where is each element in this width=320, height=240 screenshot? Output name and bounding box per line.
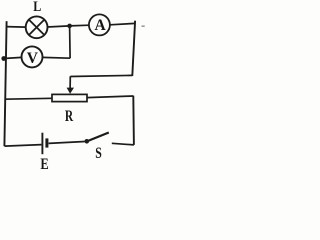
rheostat slider arrowhead (67, 88, 74, 94)
svg-text:V: V (27, 50, 39, 67)
wire left vertical (4, 21, 6, 146)
svg-text:L: L (33, 0, 41, 14)
switch S pivot node (85, 139, 90, 144)
wire right vertical lower (132, 96, 135, 145)
rheostat R body (52, 94, 87, 101)
wire battery to switch (49, 142, 85, 144)
wire rheostat left (5, 97, 53, 100)
switch S blade (87, 133, 109, 142)
svg-text:A: A (94, 17, 106, 34)
wire right vertical upper (132, 21, 135, 76)
wire lamp to node (47, 26, 69, 27)
wire top-left to lamp (6, 26, 26, 29)
wire slider horizontal (70, 75, 132, 76)
wire slider vertical (69, 76, 71, 89)
node junction left (1, 56, 6, 61)
svg-text:E: E (40, 156, 48, 171)
battery E short plate (45, 138, 48, 147)
node junction top (67, 24, 72, 29)
wire ammeter to top-right corner (110, 23, 136, 24)
svg-text:S: S (95, 144, 102, 161)
wire bottom right to switch (112, 143, 134, 145)
wire bottom left to battery (5, 145, 42, 147)
wire left node to voltmeter (4, 57, 22, 58)
svg-text:R: R (65, 107, 73, 124)
voltmeter V (22, 46, 43, 67)
stray mark right edge (142, 25, 145, 27)
battery E long plate (41, 133, 43, 155)
wire node to voltmeter corner vertical (69, 26, 72, 58)
wire node to ammeter (70, 24, 90, 27)
wire corner to voltmeter (42, 56, 70, 59)
wire rheostat right (87, 96, 134, 98)
lamp L (bulb circle with X) (26, 16, 48, 38)
ammeter A (89, 14, 110, 35)
